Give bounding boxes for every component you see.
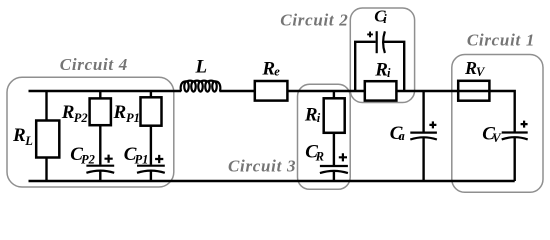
svg-text:Circuit 4: Circuit 4 xyxy=(60,55,128,74)
svg-text:R: R xyxy=(261,59,275,80)
svg-text:R: R xyxy=(113,102,127,123)
svg-text:Circuit 1: Circuit 1 xyxy=(467,30,535,49)
svg-text:P2: P2 xyxy=(74,111,88,125)
svg-text:Circuit 2: Circuit 2 xyxy=(280,10,348,29)
svg-text:P1: P1 xyxy=(126,111,140,125)
svg-text:R: R xyxy=(315,150,324,164)
svg-text:Circuit 3: Circuit 3 xyxy=(228,156,296,175)
svg-text:R: R xyxy=(374,59,388,80)
svg-text:L: L xyxy=(195,56,208,77)
svg-text:V: V xyxy=(492,131,502,145)
svg-text:i: i xyxy=(383,12,387,26)
svg-text:a: a xyxy=(399,129,405,143)
svg-text:i: i xyxy=(317,111,321,125)
svg-text:i: i xyxy=(387,66,391,80)
svg-text:e: e xyxy=(274,65,280,79)
svg-text:R: R xyxy=(304,104,318,125)
svg-text:R: R xyxy=(12,125,26,146)
svg-text:V: V xyxy=(476,65,486,79)
svg-text:P1: P1 xyxy=(135,152,149,166)
svg-text:R: R xyxy=(61,102,75,123)
svg-text:P2: P2 xyxy=(81,152,95,166)
svg-text:L: L xyxy=(24,134,33,148)
